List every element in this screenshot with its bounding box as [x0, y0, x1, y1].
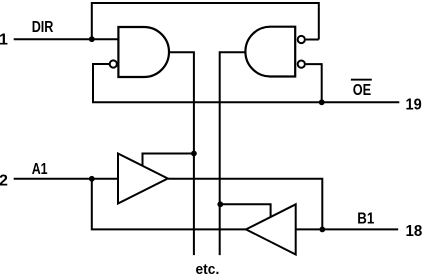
junction node: DIR line to top rail	[89, 36, 95, 42]
wire: buffer BA enable stub from slant up and right to G1 output vertical	[143, 154, 194, 166]
junction node: buffer BA output on B1 line	[319, 227, 325, 233]
svg-text:DIR: DIR	[32, 19, 54, 36]
junction node: G2 lower input on OE rail	[319, 99, 325, 105]
junction node: buffer BA enable on G1 output vertical	[191, 151, 197, 157]
wire: buffer BB enable from G2 output vertical junction right, stub down to slant	[220, 204, 270, 216]
input bubble on G2 lower input	[298, 61, 305, 68]
wire: top rail from DIR node up, across, down to G2 upper input bubble	[92, 3, 319, 40]
svg-text:OE: OE	[353, 82, 372, 99]
junction node: buffer BB enable on G2 output vertical	[217, 201, 223, 207]
svg-text:18: 18	[406, 223, 423, 240]
input bubble on G1 lower input	[110, 60, 117, 67]
wire: G2 output left then down the middle (etc. continuation)	[220, 52, 246, 255]
NAND gate G2 (mirrored)	[245, 27, 295, 77]
wire: G1 output right then down the middle (etc. continuation)	[169, 52, 194, 255]
overline bar of OE	[351, 79, 372, 81]
junction node: A1 line to buffer BB output	[89, 176, 95, 182]
wire: pin 2 A1 lead into buffer BA input and node	[14, 178, 118, 180]
svg-text:1: 1	[0, 32, 8, 49]
svg-text:2: 2	[0, 173, 8, 190]
svg-text:A1: A1	[32, 161, 48, 178]
NAND gate G1 (DIR side)	[118, 27, 169, 77]
svg-text:B1: B1	[357, 210, 374, 227]
wire: pin 1 DIR lead into G1 upper input	[14, 38, 119, 40]
wire: G1 lower input bubble left, down to OE rail, OE rail across to pin 19	[93, 64, 399, 102]
wire: buffer BB output left across, up to A1 line junction	[92, 179, 246, 230]
wire: B1 line from buffer BB input to pin 18	[296, 228, 399, 230]
tri-state buffer BA (A1 to B1 direction)	[118, 154, 168, 204]
wire: G2 lower input bubble right then down to OE rail junction	[306, 64, 322, 102]
input bubble on G2 upper input	[298, 36, 305, 43]
wire: G2 upper input bubble to top rail corner	[306, 39, 319, 41]
wire: buffer BA output right across, down to B1 line junction	[168, 179, 322, 230]
svg-text:etc.: etc.	[196, 261, 220, 278]
tri-state buffer BB (B1 to A1 direction)	[246, 204, 296, 254]
svg-text:19: 19	[406, 97, 422, 114]
